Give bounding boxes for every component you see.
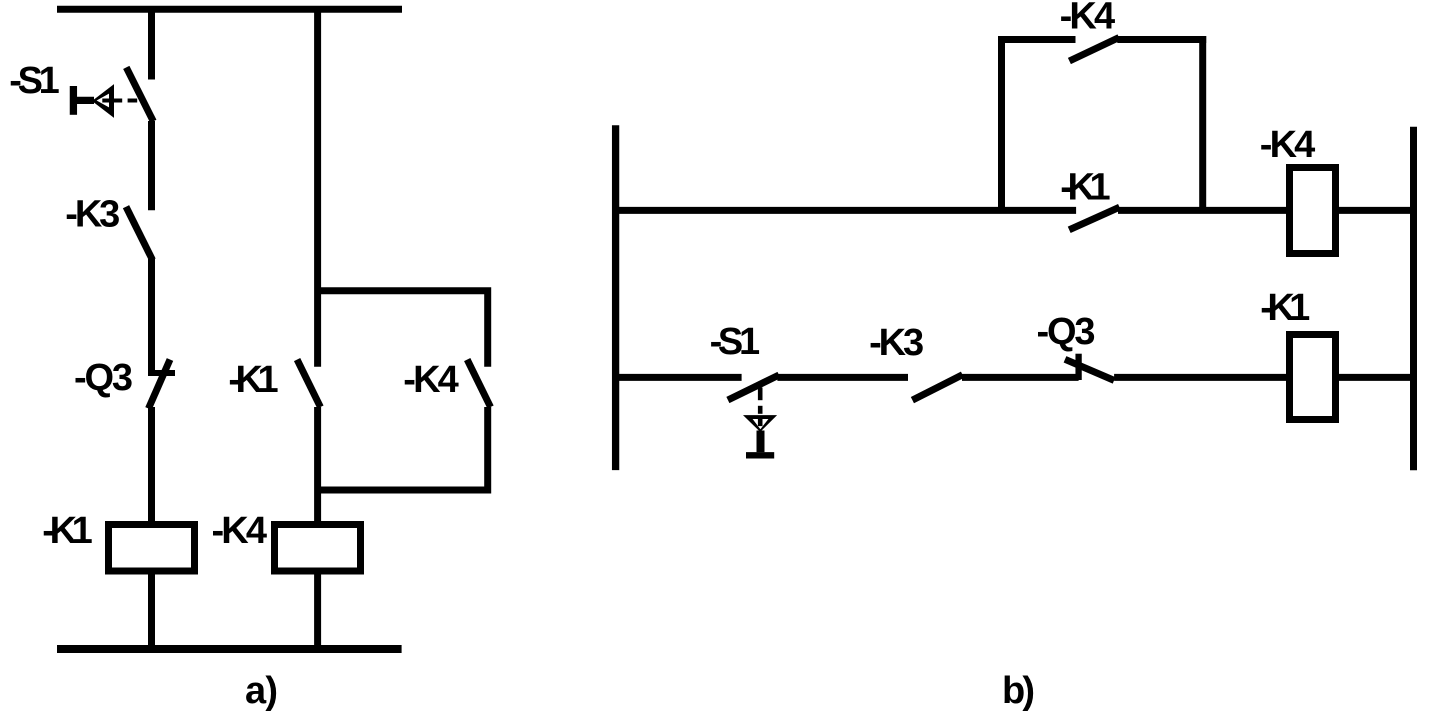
svg-text:-K1: -K1 — [1260, 287, 1310, 329]
actuator triangle (circuit b) — [743, 415, 777, 432]
actuator stem (circuit b) — [757, 431, 765, 453]
actuator dash 1 (circuit b) — [758, 388, 763, 401]
parallel branch lower wire — [318, 407, 488, 490]
bottom rung wire second segment — [777, 374, 908, 381]
actuator of -S1 stem — [71, 97, 95, 104]
svg-text:-K1: -K1 — [42, 510, 93, 552]
svg-text:b): b) — [1002, 670, 1035, 712]
pushbutton contact -S1 blade — [126, 67, 153, 121]
svg-text:-K4: -K4 — [1060, 0, 1116, 38]
svg-text:-Q3: -Q3 — [1037, 311, 1096, 353]
contact -K4 blade (top branch) — [1069, 38, 1119, 62]
svg-text:-K3: -K3 — [869, 322, 924, 364]
NC contact -Q3 blade — [149, 360, 171, 409]
actuator triangle notch (circuit b) — [753, 419, 769, 429]
svg-text:-K4: -K4 — [1260, 124, 1316, 166]
actuator link dash 2 — [128, 99, 138, 103]
top rung wire right — [1339, 207, 1414, 214]
wire between -Q3 and coil -K1 — [148, 407, 155, 521]
contact -K4 blade (circuit a) — [467, 360, 490, 407]
wire between -S1 and -K3 — [148, 121, 155, 210]
actuator T-bar (circuit b) — [746, 452, 774, 458]
wire between -K3 and -Q3 — [148, 259, 155, 376]
top supply rail (circuit a) — [57, 6, 402, 13]
wire right branch upper segment — [314, 6, 321, 367]
actuator dash 2 (circuit b) — [758, 406, 763, 414]
parallel branch upper wire — [318, 291, 488, 367]
wire left branch upper segment — [148, 6, 155, 80]
svg-text:-Q3: -Q3 — [74, 357, 133, 399]
bottom rung wire third segment — [962, 374, 1079, 381]
actuator dash inside triangle — [758, 419, 763, 426]
bottom rung wire right — [1339, 374, 1414, 381]
NC contact -Q3 seat — [148, 370, 175, 376]
bottom supply rail (circuit a) — [57, 645, 402, 653]
right rail (circuit b) — [1410, 127, 1417, 471]
svg-text:-K4: -K4 — [212, 510, 268, 552]
svg-text:-K1: -K1 — [1060, 167, 1111, 209]
branch top wire right — [1117, 36, 1206, 43]
bottom rung wire fourth segment — [1114, 374, 1286, 381]
branch vertical left — [998, 36, 1005, 210]
contact -K3 blade — [126, 207, 153, 260]
wire between -K1 contact and coil -K4 — [314, 407, 321, 521]
coil -K4 (circuit b) — [1290, 168, 1336, 254]
pushbutton -S1 blade (circuit b) — [728, 375, 779, 400]
svg-text:-K4: -K4 — [403, 359, 459, 401]
actuator link dash 1 — [102, 99, 122, 103]
svg-text:-S1: -S1 — [9, 60, 60, 102]
top rung wire middle — [1118, 207, 1286, 214]
bottom rung wire left — [612, 374, 742, 381]
actuator of -S1 triangle notch — [97, 94, 109, 108]
branch vertical right — [1199, 36, 1206, 210]
wire coil -K1 to bottom rail — [148, 575, 155, 650]
coil -K1 — [109, 525, 195, 572]
contact -K1 blade (circuit b) — [1069, 207, 1119, 230]
actuator of -S1 (T-bar) — [70, 86, 77, 115]
left rail (circuit b) — [612, 125, 619, 470]
coil -K4 — [275, 525, 361, 572]
branch top wire left — [998, 36, 1076, 43]
contact -K3 blade (circuit b) — [912, 375, 962, 400]
top rung wire left — [612, 207, 1076, 214]
actuator of -S1 triangle — [92, 84, 114, 118]
NC contact -Q3 seat (circuit b) — [1075, 354, 1081, 380]
coil -K1 (circuit b) — [1290, 335, 1336, 420]
svg-text:-K1: -K1 — [228, 359, 278, 401]
contact -K1 blade (circuit a) — [297, 360, 320, 407]
svg-text:-S1: -S1 — [710, 321, 761, 363]
svg-text:-K3: -K3 — [65, 194, 120, 236]
wire coil -K4 to bottom rail — [314, 575, 321, 650]
svg-text:a): a) — [245, 670, 278, 712]
NC contact -Q3 blade (circuit b) — [1065, 359, 1114, 380]
